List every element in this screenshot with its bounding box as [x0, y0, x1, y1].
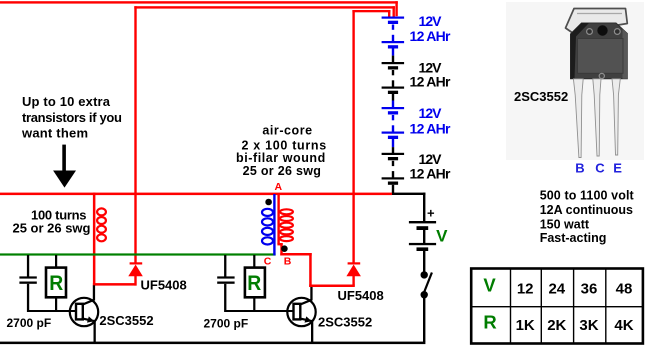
diode D2 UF5408	[346, 262, 361, 285]
switch	[421, 271, 432, 342]
svg-text:+: +	[427, 206, 435, 221]
svg-text:2K: 2K	[547, 317, 566, 334]
leg C	[593, 79, 601, 156]
svg-text:air-core: air-core	[262, 124, 312, 138]
wire: bottom black bus	[0, 342, 425, 345]
svg-text:12 AHr: 12 AHr	[410, 74, 452, 90]
svg-text:R: R	[49, 272, 63, 295]
svg-text:25 or 26 swg: 25 or 26 swg	[13, 221, 91, 236]
svg-text:12V: 12V	[419, 151, 443, 167]
svg-text:2SC3552: 2SC3552	[318, 315, 372, 330]
svg-text:E: E	[613, 161, 622, 176]
battery B1 12V 12AHr (blue)	[382, 17, 405, 56]
svg-text:24: 24	[548, 281, 565, 298]
svg-text:bi-filar wound: bi-filar wound	[236, 151, 326, 165]
svg-text:R: R	[483, 312, 496, 333]
capacitor C2 2700pF	[217, 255, 293, 312]
bifilar coil blue winding	[262, 194, 276, 255]
leg B	[573, 79, 583, 158]
svg-text:2SC3552: 2SC3552	[514, 89, 568, 104]
transistor Q1 2SC3552	[70, 285, 98, 343]
svg-text:Fast-acting: Fast-acting	[540, 231, 607, 245]
svg-text:48: 48	[616, 281, 633, 298]
bifilar coil red winding	[277, 194, 293, 244]
svg-text:12 AHr: 12 AHr	[410, 120, 452, 136]
svg-text:12: 12	[517, 281, 534, 298]
wire: top red rail 1	[0, 1, 398, 16]
capacitor C1 2700pF	[19, 255, 75, 312]
coil L1 100 turns (red)	[97, 208, 106, 241]
transistor photo body	[571, 23, 628, 79]
svg-text:500 to 1100 volt: 500 to 1100 volt	[540, 188, 635, 202]
svg-text:B: B	[284, 256, 292, 268]
svg-text:2SC3552: 2SC3552	[99, 313, 153, 328]
body bottom hole	[599, 73, 604, 78]
label spec block	[540, 188, 635, 245]
body small hole left	[587, 29, 593, 35]
svg-text:12 AHr: 12 AHr	[410, 166, 452, 182]
green base bus	[0, 253, 276, 255]
phase dot top	[265, 199, 272, 206]
wire: red positive bus	[0, 193, 392, 196]
svg-text:C: C	[264, 256, 272, 268]
svg-text:V: V	[483, 275, 496, 296]
battery B4 12V 12AHr (black)	[382, 147, 405, 193]
svg-text:A: A	[275, 181, 283, 193]
table row V values	[517, 281, 632, 298]
wire: red riser stage1 collector	[93, 193, 137, 286]
photo background 2SC3552	[506, 2, 644, 160]
diode D1 UF5408	[128, 262, 143, 285]
label air-core block	[236, 124, 326, 178]
battery B3 12V 12AHr (blue)	[382, 101, 405, 148]
battery B2 12V 12AHr (black)	[382, 56, 405, 101]
transistor Q2 2SC3552	[287, 287, 315, 343]
table V/R values	[471, 269, 643, 344]
svg-text:C: C	[595, 161, 605, 176]
resistor R1	[46, 255, 66, 310]
wire: stage2 red collector link	[277, 243, 354, 287]
transistor photo metal tab	[566, 9, 628, 33]
svg-text:UF5408: UF5408	[338, 288, 384, 303]
svg-text:150 watt: 150 watt	[540, 217, 590, 231]
svg-text:25 or 26 swg: 25 or 26 swg	[243, 164, 322, 178]
svg-text:12V: 12V	[419, 13, 443, 29]
svg-text:1K: 1K	[516, 317, 535, 334]
svg-text:36: 36	[581, 281, 598, 298]
svg-text:B: B	[575, 161, 584, 176]
svg-text:UF5408: UF5408	[141, 278, 187, 293]
svg-text:3K: 3K	[579, 317, 598, 334]
wire: red rail 2 (to diode D1)	[134, 6, 395, 263]
resistor R2	[245, 255, 265, 310]
leg E	[612, 79, 620, 155]
svg-text:2700 pF: 2700 pF	[7, 316, 52, 330]
svg-text:transistors if you: transistors if you	[22, 110, 122, 125]
arrow down	[53, 145, 76, 188]
svg-text:12V: 12V	[419, 105, 443, 121]
phase dot bottom	[281, 245, 288, 252]
body big hole	[597, 25, 607, 35]
svg-text:2700 pF: 2700 pF	[204, 317, 249, 331]
label up to 10 extra transistors	[21, 94, 122, 141]
table row R values	[516, 317, 634, 334]
body face plate	[578, 39, 624, 74]
wire: red rail 3 (to diode D2)	[352, 10, 390, 263]
svg-text:Up to 10 extra: Up to 10 extra	[22, 94, 111, 109]
svg-text:12A continuous: 12A continuous	[540, 203, 633, 217]
svg-text:V: V	[436, 227, 448, 246]
svg-text:R: R	[247, 272, 261, 295]
svg-text:12 AHr: 12 AHr	[410, 28, 452, 44]
body small hole right	[614, 29, 620, 35]
battery V cell2	[409, 243, 436, 272]
wire: black top right segment	[392, 193, 425, 222]
svg-text:want them: want them	[21, 125, 88, 140]
svg-text:4K: 4K	[614, 317, 633, 334]
battery V cell1	[409, 221, 436, 243]
